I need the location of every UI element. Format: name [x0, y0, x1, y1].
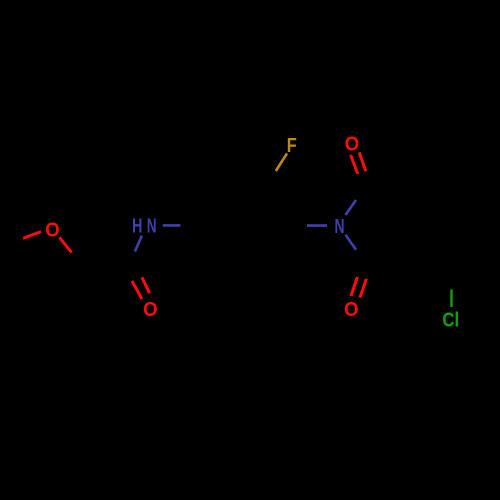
double bond half line 2: top C=O	[359, 152, 366, 171]
bond half: amide N to phenyl C1	[163, 224, 181, 227]
svg-text:H: H	[132, 216, 142, 238]
double bond half line 1: top C=O	[351, 155, 358, 174]
bond half: imide N to top carbonyl C	[346, 200, 357, 215]
bond half: imide N to bottom carbonyl C	[346, 235, 357, 250]
double bond half line 2: bottom C=O	[360, 279, 366, 298]
double bond half line 2: amide C=O	[142, 277, 150, 293]
bond half: Cl to ring C	[450, 290, 452, 308]
svg-text:F: F	[287, 135, 297, 157]
wire: carbon skeleton (black on black)	[0, 160, 462, 310]
double bond half line 1: bottom C=O	[351, 277, 357, 296]
bond half: amide N to carbonyl C	[135, 236, 142, 252]
svg-text:N: N	[335, 216, 345, 238]
double bond half line 1: amide C=O	[132, 281, 142, 299]
svg-text:O: O	[345, 134, 359, 156]
bond half: furan O to C5	[23, 232, 41, 239]
bond half: imide N to phenyl C4	[307, 224, 327, 227]
svg-text:Cl: Cl	[442, 310, 459, 332]
svg-text:O: O	[45, 219, 59, 241]
svg-text:O: O	[143, 299, 157, 321]
svg-text:N: N	[147, 216, 157, 238]
svg-text:O: O	[344, 299, 358, 321]
bond half: F to phenyl C3	[276, 153, 287, 171]
bond half: furan O to C2	[60, 238, 72, 253]
